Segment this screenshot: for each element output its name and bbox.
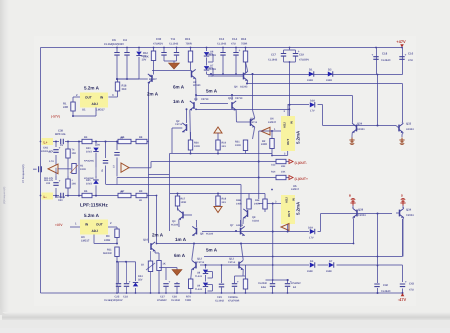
label 5.2mA top-left: [84, 86, 100, 91]
wire OUT- feedback line: [129, 162, 289, 168]
label 5.2mA right top: [296, 130, 301, 144]
transistor Q7: [230, 220, 245, 236]
wire C31 C32 top link: [266, 280, 290, 293]
bias arrow down: [214, 207, 222, 213]
node L- terminal: [42, 193, 66, 203]
wire x221 vertical: [221, 265, 223, 293]
svg-text:740R: 740R: [185, 299, 191, 302]
terminal Q24 emitter: [349, 138, 354, 145]
resistor R27: [254, 194, 267, 213]
svg-text:Q16: Q16: [143, 238, 148, 241]
svg-text:(L)OUT+: (L)OUT+: [295, 177, 308, 181]
svg-text:TL431: TL431: [195, 275, 203, 278]
svg-text:24R: 24R: [63, 106, 68, 109]
svg-text:A1243: A1243: [236, 224, 244, 227]
svg-text:ADJ: ADJ: [92, 229, 99, 233]
svg-text:3D: 3D: [139, 199, 142, 202]
svg-text:-47V: -47V: [398, 297, 407, 302]
resistor R17: [175, 193, 186, 211]
svg-text:L+: L+: [44, 141, 48, 145]
diode D28: [289, 100, 316, 113]
wire L- input line: [51, 195, 157, 197]
transistor Q16: [143, 238, 159, 260]
wire Q28 emitter: [353, 219, 355, 244]
wire lowpass caps link: [117, 261, 136, 263]
svg-text:C42: C42: [383, 284, 388, 287]
svg-text:5m A: 5m A: [206, 88, 218, 93]
svg-text:240R: 240R: [261, 143, 267, 146]
capacitor C3: [101, 141, 108, 185]
transistor Q3: [171, 208, 192, 227]
svg-text:Q28: Q28: [358, 208, 364, 211]
wire rail B5: [204, 219, 403, 257]
arrow out of U5: [281, 224, 289, 233]
wire Q28 collector: [352, 203, 354, 208]
svg-text:+: +: [405, 53, 407, 57]
capacitor C4: [104, 38, 139, 79]
resistor R9: [157, 261, 166, 294]
label 5.2mA right bottom: [296, 201, 301, 215]
wire bottom mirror M2b: [170, 193, 265, 195]
wire Q34 emitter: [402, 219, 404, 257]
svg-text:4148: 4148: [326, 270, 332, 273]
resistor R5: [82, 190, 92, 198]
svg-text:T11: T11: [171, 37, 176, 41]
svg-text:C17: C17: [271, 54, 276, 57]
wire bias node bottom: [159, 268, 177, 281]
transistor Q10: [228, 94, 243, 122]
capacitor C43: [400, 280, 415, 294]
svg-text:Q6: Q6: [200, 233, 204, 236]
svg-text:C25: C25: [115, 296, 120, 299]
svg-text:4C180: 4C180: [193, 84, 201, 87]
svg-text:(L)OUT-: (L)OUT-: [295, 161, 307, 165]
svg-text:6m A: 6m A: [173, 85, 185, 90]
capacitor C32: [285, 279, 301, 289]
wire C17C19 column: [284, 48, 296, 117]
transistor U2: [152, 69, 201, 95]
wire D28 branch: [288, 105, 323, 117]
svg-text:6m A: 6m A: [174, 253, 186, 258]
svg-text:C2003: C2003: [406, 214, 414, 217]
label 2mA bottom: [152, 233, 164, 238]
svg-text:CL264C: CL264C: [381, 59, 391, 62]
svg-text:47U/20V: 47U/20V: [299, 59, 309, 62]
svg-text:A1243: A1243: [240, 86, 248, 89]
svg-text:C3713: C3713: [197, 261, 205, 264]
svg-text:4148: 4148: [307, 270, 313, 273]
capacitor C31: [258, 282, 275, 289]
regulator U4 LM337: [268, 110, 295, 151]
label 5mA bottom: [206, 247, 218, 252]
svg-text:C40: C40: [58, 199, 63, 202]
wire center column x377 bottom: [377, 214, 379, 294]
capacitor C1: [49, 141, 61, 168]
svg-text:1m A: 1m A: [175, 237, 187, 242]
svg-text:TL431: TL431: [195, 288, 203, 291]
svg-text:R70: R70: [186, 295, 191, 298]
svg-text:4148: 4148: [307, 79, 313, 82]
capacitor C2: [44, 176, 61, 197]
svg-text:C43: C43: [409, 283, 414, 286]
wire Q6-Q7 base line to driver: [202, 231, 309, 233]
svg-text:+: +: [129, 280, 131, 284]
terminal Q28 collector: [349, 193, 356, 205]
resistor R10: [216, 140, 227, 155]
svg-text:IN: IN: [290, 121, 294, 124]
wire x169 vertical: [149, 154, 170, 232]
capacitor C42: [374, 284, 390, 294]
resistor R26: [188, 140, 200, 155]
svg-text:KPU(250): KPU(250): [84, 177, 94, 180]
svg-text:10K: 10K: [281, 171, 286, 174]
wire Q24 emitter: [351, 136, 353, 138]
transistor Q2: [172, 108, 191, 140]
svg-text:5m A: 5m A: [206, 247, 218, 252]
shunt reference U7: [204, 65, 217, 76]
label 5mA top: [206, 88, 218, 93]
transistor Q9: [190, 94, 209, 140]
arrow into U4: [261, 127, 270, 135]
svg-text:2m A: 2m A: [152, 233, 164, 238]
svg-text:+: +: [371, 53, 373, 57]
svg-text:C3713: C3713: [201, 98, 209, 101]
svg-text:LM317: LM317: [81, 240, 90, 243]
capacitor C17: [268, 54, 286, 62]
svg-text:4C180: 4C180: [206, 233, 214, 236]
resistor R7: [118, 190, 131, 198]
diode D7: [326, 260, 334, 273]
svg-text:U3: U3: [81, 235, 85, 239]
capacitor C30R: [228, 276, 239, 302]
svg-text:EA6: EA6: [261, 286, 266, 289]
wire L+ input line: [51, 141, 149, 143]
svg-text:A13: A13: [271, 164, 276, 167]
svg-text:17V: 17V: [309, 236, 314, 239]
svg-text:CL1042: CL1042: [169, 42, 179, 45]
svg-text:240R: 240R: [104, 239, 110, 242]
svg-text:C30RGL: C30RGL: [228, 296, 239, 299]
svg-text:47U/25V: 47U/25V: [291, 282, 301, 285]
transistor Q4: [210, 62, 248, 89]
svg-text:47U: 47U: [409, 289, 414, 292]
capacitor C25: [115, 262, 122, 299]
svg-text:10K: 10K: [72, 152, 77, 155]
trimmer T5: [66, 176, 76, 197]
svg-text:4148: 4148: [326, 79, 332, 82]
svg-text:140R: 140R: [236, 202, 242, 205]
capacitor C6: [112, 38, 120, 79]
resistor R9b: [136, 190, 147, 202]
svg-text:R01-47U: R01-47U: [44, 177, 54, 180]
label 2mA top: [147, 91, 159, 96]
svg-text:CL1042: CL1042: [215, 299, 225, 302]
wire column x272 lower: [272, 204, 274, 281]
capacitor C39: [61, 193, 64, 198]
power -57V node: [51, 115, 96, 119]
svg-text:R3: R3: [106, 235, 110, 238]
svg-text:Q7: Q7: [230, 224, 234, 227]
wire output base line bottom B1: [321, 214, 393, 232]
svg-text:C3713: C3713: [250, 121, 258, 124]
svg-text:100R: 100R: [181, 201, 187, 204]
svg-text:Q34: Q34: [406, 208, 412, 211]
label 6mA top: [173, 85, 185, 90]
svg-text:OUT: OUT: [286, 139, 290, 145]
shunt reference U8: [195, 264, 213, 281]
capacitor C16: [399, 52, 413, 62]
power -47V: [398, 293, 407, 302]
svg-text:750R: 750R: [186, 42, 192, 45]
svg-text:47U/700R: 47U/700R: [228, 299, 239, 302]
zener D22: [136, 48, 147, 80]
svg-text:LM317: LM317: [96, 108, 105, 112]
left margin note: [3, 187, 6, 204]
svg-text:+: +: [168, 280, 170, 284]
svg-text:35V: 35V: [138, 278, 143, 281]
svg-text:17V: 17V: [310, 109, 315, 112]
potentiometer H1: [63, 164, 86, 174]
svg-text:2.5K: 2.5K: [143, 55, 149, 58]
svg-text:L-: L-: [44, 195, 47, 199]
resistor R19: [216, 193, 227, 207]
svg-text:KF301-47V: KF301-47V: [41, 150, 54, 153]
svg-text:2m A: 2m A: [147, 91, 159, 96]
svg-text:C27: C27: [160, 295, 165, 298]
diode D29: [308, 227, 315, 240]
svg-text:+: +: [237, 280, 239, 284]
resistor R13: [271, 159, 286, 168]
svg-text:1m A: 1m A: [173, 99, 185, 104]
label LPF: [80, 203, 108, 209]
resistor R1: [63, 97, 75, 116]
svg-text:C28: C28: [172, 295, 177, 298]
svg-text:C6: C6: [112, 38, 116, 42]
svg-text:1K: 1K: [141, 263, 144, 266]
label 5.2mA bottom-left: [84, 213, 100, 218]
capacitor T11: [164, 37, 179, 61]
svg-text:CL164(102)/33V: CL164(102)/33V: [104, 43, 124, 46]
node LOUT-: [289, 160, 307, 166]
resistor R15: [185, 37, 193, 69]
svg-text:C29: C29: [217, 296, 222, 299]
svg-text:ADJ: ADJ: [283, 122, 287, 128]
transistor Q1: [116, 74, 157, 84]
wire U4 left pin: [259, 128, 281, 132]
svg-text:MPP-106: MPP-106: [55, 133, 66, 136]
capacitor C18: [371, 52, 390, 62]
svg-text:LPF:115KHz: LPF:115KHz: [80, 203, 108, 209]
wire x156 vertical: [156, 196, 158, 244]
wire long vertical x148: [148, 83, 150, 242]
transistor Q33: [377, 122, 415, 135]
potentiometer T7: [141, 251, 155, 293]
regulator U3 LM317: [80, 220, 117, 244]
zener D21: [86, 176, 99, 197]
svg-text:10V2: 10V2: [86, 150, 92, 153]
svg-text:CL164(100)/19V: CL164(100)/19V: [104, 299, 123, 302]
svg-text:750R: 750R: [241, 42, 247, 45]
svg-text:TL431: TL431: [209, 54, 217, 57]
svg-text:10V2: 10V2: [86, 182, 92, 185]
svg-text:CL2040: CL2040: [258, 282, 268, 285]
ground top: [169, 61, 180, 69]
svg-text:Q24: Q24: [357, 122, 363, 125]
svg-text:+47V: +47V: [396, 39, 406, 44]
wire Q12-Q13 base link: [200, 264, 243, 266]
svg-text:D29: D29: [308, 227, 313, 230]
svg-text:C18: C18: [382, 52, 388, 56]
resistor R12: [143, 48, 156, 75]
resistor R23: [235, 265, 248, 293]
transistor Q8: [243, 209, 260, 224]
svg-text:A1183: A1183: [252, 220, 260, 223]
vertical x79: [78, 141, 80, 197]
svg-text:100R: 100R: [194, 145, 200, 148]
diode D1: [307, 69, 314, 82]
frame capacitor C7: [22, 164, 41, 183]
svg-text:3K1: 3K1: [222, 145, 227, 148]
svg-text:R16: R16: [241, 37, 247, 41]
resistor R14: [271, 171, 286, 180]
capacitor C12: [217, 37, 227, 74]
svg-text:Q33: Q33: [406, 122, 412, 125]
svg-text:10V: 10V: [142, 58, 147, 61]
wire Q9-Q10 base link: [200, 103, 228, 105]
svg-text:ADJ: ADJ: [92, 102, 99, 106]
svg-text:D28: D28: [310, 100, 315, 103]
resistor R70: [185, 279, 193, 302]
svg-text:(C)Frequenz(C): (C)Frequenz(C): [3, 187, 6, 204]
transistor Q34: [396, 207, 414, 219]
svg-text:OUT: OUT: [96, 223, 103, 227]
svg-text:BD437: BD437: [149, 78, 157, 81]
transistor Q6: [192, 220, 214, 236]
shunt reference U9: [195, 281, 213, 293]
svg-text:OUT: OUT: [287, 211, 291, 217]
shunt reference U6: [204, 48, 217, 66]
resistor R20: [236, 194, 251, 210]
svg-text:+: +: [405, 280, 407, 284]
wire M6 line: [106, 185, 242, 228]
wire D29 branch: [318, 231, 321, 233]
wire rail B4: [157, 243, 354, 245]
wire OUT+ feedback line: [117, 177, 289, 179]
svg-text:Q10: Q10: [228, 97, 233, 100]
svg-text:D1: D1: [309, 69, 313, 72]
output arrow right: [121, 163, 129, 172]
svg-text:1K: 1K: [163, 262, 166, 265]
capacitor C26: [104, 262, 131, 302]
wire bottom -rail: [41, 292, 403, 294]
wire top +rail: [41, 47, 403, 49]
svg-text:3K3: 3K3: [122, 88, 127, 91]
svg-text:961/1W: 961/1W: [103, 252, 112, 255]
svg-text:C12: C12: [219, 37, 225, 41]
svg-text:C02: C02: [46, 182, 51, 185]
wire mid M2: [170, 128, 273, 154]
resistor R2: [261, 131, 274, 156]
capacitor C28: [171, 282, 181, 302]
svg-text:KPU(250): KPU(250): [84, 159, 94, 162]
svg-text:47U/62V: 47U/62V: [157, 299, 167, 302]
cluster extra labels: [44, 137, 124, 194]
svg-text:5.2mA: 5.2mA: [296, 130, 301, 144]
power +37V node: [55, 222, 80, 228]
svg-text:100R: 100R: [80, 168, 86, 171]
label 1mA bottom: [175, 237, 187, 242]
capacitor C27: [157, 280, 170, 302]
wire output base line top H7: [323, 105, 397, 126]
transistor Q13: [228, 243, 243, 277]
wire center column x377 top: [377, 75, 379, 126]
svg-text:LM337: LM337: [268, 121, 277, 124]
svg-text:A1943: A1943: [406, 128, 414, 131]
svg-text:D2: D2: [328, 69, 332, 72]
svg-text:39K: 39K: [281, 165, 286, 168]
svg-text:R14: R14: [271, 171, 276, 174]
wire +cap columns: [377, 48, 403, 75]
svg-text:C2003: C2003: [358, 214, 366, 217]
wire C43 column: [402, 289, 404, 294]
resistor R4: [82, 136, 92, 144]
svg-text:R9: R9: [139, 190, 143, 193]
svg-text:D4: D4: [310, 260, 314, 263]
svg-text:C3713: C3713: [175, 123, 183, 126]
wire U5 pin3 feed: [259, 201, 281, 205]
svg-text:+37V: +37V: [55, 223, 63, 227]
svg-text:ADJ: ADJ: [285, 197, 289, 203]
resistor R18: [109, 79, 127, 97]
svg-text:5.2mA: 5.2mA: [296, 201, 301, 215]
svg-text:+: +: [59, 179, 61, 183]
svg-text:CL264C: CL264C: [381, 290, 391, 293]
svg-text:R4: R4: [84, 136, 88, 139]
svg-text:47U/63V: 47U/63V: [153, 42, 163, 45]
wire rail B6 diode rail: [243, 265, 403, 282]
regulator U1 LM317: [73, 93, 114, 117]
wire H6 to regulator column: [196, 109, 290, 111]
wire Q33 emitter: [401, 135, 403, 138]
svg-text:240R: 240R: [254, 202, 260, 205]
svg-text:C30: C30: [156, 37, 162, 41]
svg-text:U1: U1: [82, 108, 86, 112]
power +47V: [396, 39, 406, 47]
ground bottom mid: [172, 270, 182, 276]
wire U4 bottom pin: [272, 151, 288, 156]
svg-text:R5: R5: [84, 190, 88, 193]
zener D24: [133, 262, 143, 293]
wire rail H2: [207, 74, 403, 76]
terminal Q34 collector: [400, 193, 405, 205]
svg-text:D7: D7: [329, 260, 333, 263]
svg-text:A1941: A1941: [357, 128, 365, 131]
capacitor C29: [215, 284, 225, 302]
node L+ terminal: [41, 138, 54, 153]
diode D2: [326, 69, 333, 82]
svg-text:C19: C19: [299, 54, 304, 57]
svg-text:(-57V): (-57V): [51, 115, 60, 119]
label 6mA bottom: [174, 253, 186, 258]
svg-text:CL1642: CL1642: [268, 59, 278, 62]
svg-text:4C180: 4C180: [171, 224, 179, 227]
resistor R16: [241, 37, 248, 72]
svg-text:4.7U: 4.7U: [49, 160, 54, 163]
capacitor C19: [293, 49, 310, 61]
svg-text:Q9: Q9: [194, 98, 198, 101]
svg-text:C3Tx3: C3Tx3: [228, 261, 236, 264]
zener D20: [86, 141, 99, 168]
